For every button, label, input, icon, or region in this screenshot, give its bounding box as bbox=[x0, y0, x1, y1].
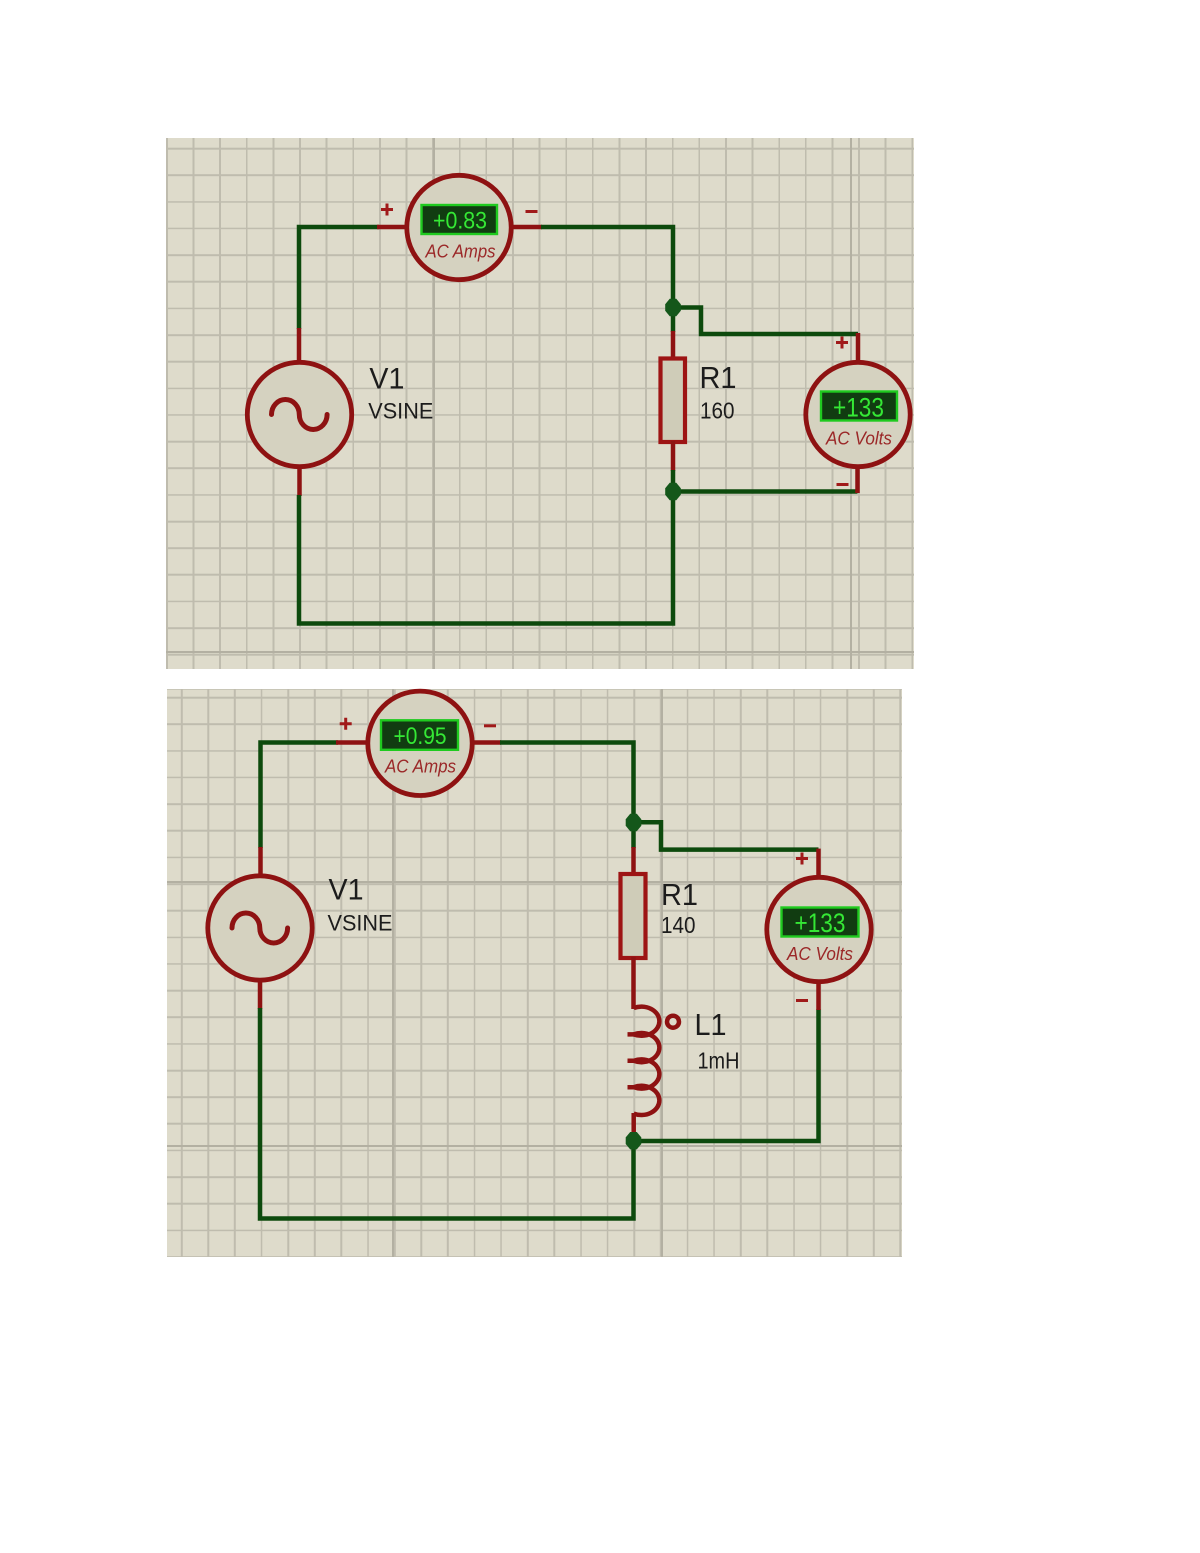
wire: V1 top pin stub (red) bbox=[297, 328, 302, 362]
voltmeter minus mark bbox=[837, 483, 849, 486]
svg-text:+0.95: +0.95 bbox=[394, 723, 447, 750]
grid panel 1 bbox=[166, 138, 914, 669]
wire: ammeter left pin stub (red) bbox=[336, 740, 377, 745]
ammeter U1 circle bbox=[407, 175, 511, 279]
wire: R1 bottom to L1 (red) bbox=[631, 957, 636, 1009]
ammeter LCD display bbox=[422, 205, 498, 234]
wire: ammeter right pin stub (red) bbox=[463, 740, 501, 745]
wire: bottom loop (green) bbox=[299, 492, 673, 624]
wire: voltmeter bottom pin stub (red) bbox=[816, 982, 821, 1010]
svg-text:AC Amps: AC Amps bbox=[384, 757, 456, 777]
wire: ammeter to node C (green) bbox=[500, 743, 634, 824]
svg-text:+133: +133 bbox=[833, 393, 884, 423]
node A junction dot bbox=[665, 299, 681, 316]
svg-text:AC Volts: AC Volts bbox=[786, 944, 853, 964]
ammeter plus mark bbox=[340, 718, 352, 730]
voltmeter LCD display bbox=[821, 392, 897, 421]
grid panel 2 bbox=[167, 689, 902, 1257]
wire: R1 top pin stub (red) bbox=[631, 847, 636, 876]
wire: node C branch to voltmeter plus (green) bbox=[634, 822, 819, 849]
wire: node B branch to voltmeter minus (green) bbox=[673, 489, 858, 494]
voltmeter U2 circle bbox=[806, 362, 910, 466]
panel 2 major grid lines bbox=[392, 689, 394, 1257]
wire: L1 bottom to node D (red) bbox=[631, 1113, 636, 1141]
sine symbol inside V1 bbox=[232, 913, 288, 943]
inductor junction hooks bbox=[628, 1034, 636, 1087]
inductor L1 coil bbox=[634, 1007, 660, 1115]
wire: V1 bottom pin stub (red) bbox=[258, 981, 263, 1009]
inductor polarity dot bbox=[667, 1016, 679, 1028]
ammeter U3 circle bbox=[368, 691, 472, 795]
ammeter plus mark bbox=[381, 204, 393, 216]
svg-text:AC Amps: AC Amps bbox=[425, 242, 496, 262]
node C junction dot bbox=[626, 814, 642, 831]
wire: V1 plus to ammeter (green, top-left corner) bbox=[299, 227, 379, 329]
svg-text:AC Volts: AC Volts bbox=[825, 429, 892, 449]
svg-text:R1: R1 bbox=[661, 877, 698, 912]
voltmeter minus mark bbox=[796, 999, 808, 1002]
wire: V1 plus to ammeter (green, top-left corner) bbox=[261, 743, 339, 849]
ammeter minus mark bbox=[526, 210, 538, 213]
svg-text:R1: R1 bbox=[700, 360, 737, 395]
svg-text:V1: V1 bbox=[329, 874, 364, 907]
wire: node C down to R1 (green) bbox=[631, 822, 636, 848]
wire: ammeter to node A (green) bbox=[541, 227, 673, 309]
wire: R1 top pin stub (red) bbox=[671, 331, 676, 360]
wire: V1 bottom pin stub (red) bbox=[297, 466, 302, 496]
wire: node A down to R1 (green) bbox=[671, 307, 676, 332]
svg-text:VSINE: VSINE bbox=[368, 398, 433, 423]
wire: bottom loop (green) bbox=[260, 1008, 634, 1219]
svg-text:VSINE: VSINE bbox=[328, 911, 393, 936]
svg-text:140: 140 bbox=[661, 912, 696, 938]
node B junction dot bbox=[665, 483, 681, 500]
resistor R1 body bbox=[621, 874, 646, 958]
panel 1 major grid lines bbox=[433, 138, 435, 669]
voltmeter U4 circle bbox=[767, 877, 871, 981]
svg-text:V1: V1 bbox=[369, 363, 404, 396]
voltmeter plus mark bbox=[836, 337, 848, 349]
ac source V1 circle bbox=[247, 362, 351, 466]
wire: voltmeter bottom pin stub (red) bbox=[855, 466, 860, 493]
wire: ammeter left pin stub (red) bbox=[377, 225, 416, 230]
wire: node D branch to voltmeter minus (green) bbox=[634, 1009, 819, 1141]
wire: R1 bottom pin stub (red) bbox=[671, 441, 676, 471]
ammeter LCD display bbox=[381, 720, 458, 750]
wire: V1 top pin stub (red) bbox=[258, 847, 263, 876]
sine symbol inside V1 bbox=[272, 400, 328, 430]
svg-text:L1: L1 bbox=[695, 1007, 727, 1042]
svg-text:160: 160 bbox=[700, 397, 735, 423]
wire: ammeter right pin stub (red) bbox=[502, 225, 542, 230]
voltmeter LCD display bbox=[782, 908, 859, 937]
resistor R1 body bbox=[661, 359, 686, 443]
wire: R1 to node B (green) bbox=[671, 470, 676, 492]
voltmeter plus mark bbox=[796, 853, 808, 865]
svg-text:1mH: 1mH bbox=[698, 1048, 740, 1074]
node D junction dot bbox=[626, 1132, 642, 1149]
svg-text:+0.83: +0.83 bbox=[433, 208, 487, 235]
ac source V1 circle bbox=[208, 876, 312, 980]
wire: voltmeter top pin stub (red) bbox=[856, 333, 861, 364]
wire: voltmeter top pin stub (red) bbox=[816, 849, 821, 879]
ammeter minus mark bbox=[484, 724, 496, 727]
svg-text:+133: +133 bbox=[795, 908, 846, 938]
wire: node A branch to voltmeter plus (green) bbox=[673, 308, 858, 335]
